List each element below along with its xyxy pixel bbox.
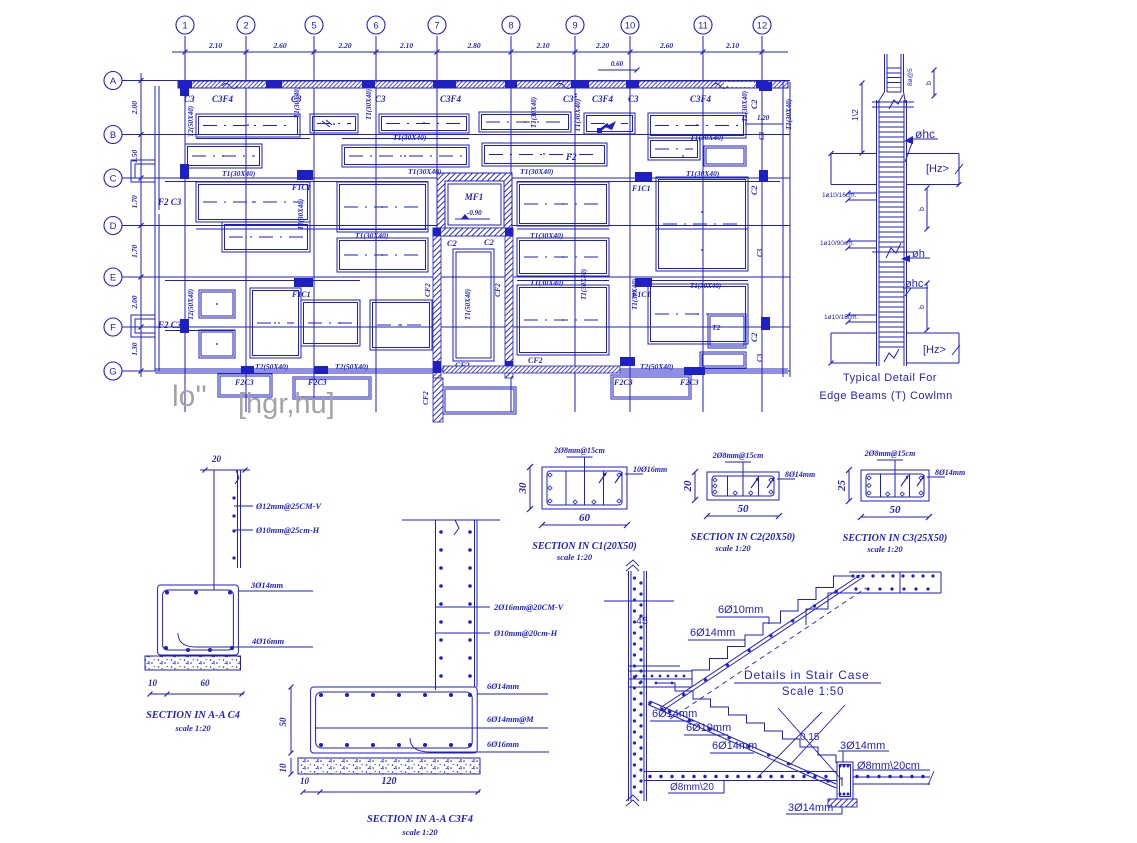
section SECTION IN C2(20X50) height dim [694, 472, 696, 500]
column F2C3 G/g5 [314, 366, 328, 374]
section C3F4 wall dots [439, 530, 472, 678]
svg-text:120: 120 [382, 776, 397, 787]
svg-text:T1(30X40): T1(30X40) [573, 98, 582, 132]
slab panel B1 [185, 144, 262, 168]
mid break and oh label [872, 251, 914, 253]
slab panel E-mid plus upper [250, 288, 301, 358]
section C4 bottom dim [150, 693, 244, 695]
svg-text:C3: C3 [375, 94, 386, 104]
svg-text:12: 12 [757, 21, 768, 32]
svg-text:2Ø8mm@15cm: 2Ø8mm@15cm [712, 451, 764, 460]
svg-text:F1C1: F1C1 [291, 290, 311, 299]
svg-text:[Hz>: [Hz> [926, 163, 949, 175]
shaft inner stair well [453, 249, 494, 361]
svg-text:T1(30X40): T1(30X40) [580, 269, 588, 300]
small step panel below T2 [700, 352, 746, 368]
svg-text:6Ø14mm@M: 6Ø14mm@M [487, 714, 534, 724]
svg-text:T1(30X40): T1(30X40) [293, 87, 301, 118]
slab panel F-left small [199, 330, 235, 358]
svg-text:30: 30 [517, 482, 529, 495]
plan right edge wall [782, 82, 784, 377]
svg-text:SECTION IN A-A C4: SECTION IN A-A C4 [146, 710, 240, 721]
section SECTION IN C1(20X50) corner diamonds [548, 473, 552, 477]
bottom slab right part [853, 769, 930, 771]
svg-text:-0.90: -0.90 [467, 209, 482, 217]
svg-text:b: b [919, 207, 926, 211]
svg-text:C2: C2 [484, 237, 495, 247]
svg-text:11: 11 [698, 21, 708, 32]
svg-text:2.20: 2.20 [595, 41, 609, 50]
svg-text:50: 50 [278, 717, 288, 727]
slab panel A4 [479, 112, 571, 132]
svg-text:6Ø14mm: 6Ø14mm [690, 627, 735, 639]
svg-text:C3F4: C3F4 [592, 94, 614, 104]
edge beam column verticals [876, 100, 878, 366]
slab panel B2 [342, 145, 469, 167]
shaft wall below G hatched [433, 378, 443, 422]
svg-text:F2C3: F2C3 [679, 378, 699, 387]
edge beam dim ticks bottom [829, 151, 834, 156]
column g12/E-F [761, 317, 770, 330]
upper flight steps [692, 576, 851, 682]
section box SECTION IN C2(20X50) [707, 472, 779, 500]
svg-text:2Ø16mm@20CM-V: 2Ø16mm@20CM-V [493, 602, 565, 612]
svg-text:T1(30X40): T1(30X40) [393, 133, 427, 142]
svg-text:2.10: 2.10 [725, 41, 739, 50]
svg-text:2.20: 2.20 [337, 41, 351, 50]
svg-text:2: 2 [243, 21, 248, 32]
svg-text:8ø@5: 8ø@5 [907, 68, 914, 86]
svg-text:Scale 1:50: Scale 1:50 [782, 686, 844, 698]
section C3F4 dim 50 vertical [290, 687, 292, 753]
svg-text:Ø12mm@25CM-V: Ø12mm@25CM-V [255, 501, 322, 511]
section C4 wall [213, 470, 215, 590]
svg-text:D: D [110, 221, 117, 232]
svg-text:1.20: 1.20 [757, 114, 770, 122]
svg-text:b: b [926, 81, 933, 85]
svg-text:T2(50X40): T2(50X40) [187, 289, 195, 320]
svg-text:scale 1:20: scale 1:20 [866, 544, 903, 554]
svg-text:[Hz>: [Hz> [923, 344, 946, 356]
svg-text:50: 50 [890, 504, 902, 516]
svg-text:T1(30X40): T1(30X40) [690, 133, 724, 142]
upper beam left [831, 153, 877, 155]
svg-text:C3F4: C3F4 [690, 94, 712, 104]
svg-text:C: C [110, 174, 117, 185]
column g1/A [180, 82, 189, 96]
svg-text:F2C3: F2C3 [307, 378, 327, 387]
slab panel C-mid [337, 182, 428, 232]
slab panel E-right of shaft [517, 285, 609, 355]
svg-text:T1(30X40): T1(30X40) [222, 169, 256, 178]
lower flight slab dots [648, 701, 829, 782]
svg-text:2.00: 2.00 [130, 101, 139, 115]
beam lines along grid D [196, 228, 428, 230]
svg-text:T1(30X40): T1(30X40) [355, 231, 389, 240]
slab panel D-mid [337, 238, 428, 272]
slab panel E-left small [199, 290, 235, 318]
plan bottom edge at G [155, 368, 788, 370]
svg-text:Ø10mm@20cm-H: Ø10mm@20cm-H [493, 628, 558, 638]
svg-text:10Ø16mm: 10Ø16mm [633, 465, 667, 474]
section SECTION IN C2(20X50) corner diamonds [713, 478, 717, 482]
section C4 wall dots [232, 496, 235, 499]
slab panel C-left lower [222, 222, 310, 252]
beam lines along grid C [165, 181, 428, 183]
stair wall break top [626, 560, 639, 571]
top slab left steps [806, 593, 849, 625]
svg-text:C3: C3 [756, 353, 764, 362]
section C3F4 top line [402, 519, 500, 521]
svg-text:b: b [919, 305, 926, 309]
svg-text:F2 C3: F2 C3 [157, 197, 182, 207]
stair wall left [628, 571, 630, 801]
svg-text:45: 45 [636, 615, 648, 627]
slab panel B3 F2 [482, 143, 607, 166]
svg-text:20: 20 [211, 454, 222, 464]
slab panel A5 with arrow [584, 113, 635, 134]
svg-text:F1C1: F1C1 [631, 184, 651, 193]
svg-text:scale 1:20: scale 1:20 [556, 552, 593, 562]
section C4 wall break top [235, 470, 239, 484]
section box SECTION IN C3(25X50) [861, 470, 929, 501]
stair shaft MF1 hatched walls [437, 173, 512, 236]
svg-text:6Ø16mm: 6Ø16mm [487, 739, 520, 749]
svg-text:scale 1:20: scale 1:20 [401, 827, 438, 837]
svg-text:T2: T2 [712, 323, 721, 332]
lower flight cross lines [757, 712, 822, 778]
room below G left [218, 374, 272, 397]
svg-text:8Ø14mm: 8Ø14mm [785, 470, 815, 479]
svg-text:A: A [110, 76, 117, 87]
svg-text:T1(30X40): T1(30X40) [785, 99, 793, 130]
svg-text:T2(50X40): T2(50X40) [255, 362, 289, 371]
svg-text:T1(30X40): T1(30X40) [408, 167, 442, 176]
section C3F4 mid rebar line [315, 727, 472, 729]
svg-text:C2: C2 [447, 238, 458, 248]
top slab [849, 571, 941, 573]
svg-text:10: 10 [278, 763, 288, 773]
svg-text:2Ø8mm@15cm: 2Ø8mm@15cm [864, 449, 916, 458]
edge beam top break [872, 101, 914, 103]
beam line along grid F [165, 330, 235, 332]
svg-text:T1(30X40): T1(30X40) [365, 89, 373, 120]
svg-text:9: 9 [572, 21, 577, 32]
svg-text:T1(50X40): T1(50X40) [464, 289, 472, 320]
svg-text:2.60: 2.60 [659, 41, 673, 50]
svg-text:T1(30X40): T1(30X40) [690, 282, 721, 290]
column F1C1 g5/E [294, 278, 313, 287]
svg-text:T1(30X40): T1(30X40) [520, 167, 554, 176]
svg-text:SECTION IN C1(20X50): SECTION IN C1(20X50) [532, 541, 636, 552]
svg-text:SECTION IN C3(25X50): SECTION IN C3(25X50) [843, 533, 947, 544]
column F2C3 G/g11 [684, 367, 705, 375]
shaft C2 walls hatched [433, 228, 441, 378]
left dimension line [140, 73, 142, 377]
room below G right of shaft [443, 387, 516, 414]
svg-text:50: 50 [738, 503, 750, 515]
svg-text:T1(30X40): T1(30X40) [686, 169, 720, 178]
svg-text:7: 7 [434, 21, 439, 32]
svg-text:F2C3: F2C3 [234, 378, 254, 387]
left wall jut at C [131, 160, 155, 182]
svg-text:0.15: 0.15 [800, 732, 820, 743]
svg-text:T1(30X40): T1(30X40) [530, 97, 538, 128]
section C4 footing [158, 585, 239, 655]
column F1C1 g10/E [635, 278, 652, 287]
stair right slab end tick [928, 771, 934, 785]
slab panel A6 [648, 113, 746, 138]
lower flight slab lines [650, 701, 836, 784]
svg-text:10: 10 [148, 678, 158, 688]
top dimension texts [208, 41, 739, 50]
svg-text:F1C1: F1C1 [291, 183, 311, 192]
svg-text:6Ø10mm: 6Ø10mm [718, 604, 763, 616]
shaft bottom solid blocks [433, 361, 441, 373]
stair beam pad hatched [828, 799, 857, 807]
svg-text:T1(30X40): T1(30X40) [741, 91, 749, 122]
bottom break [884, 349, 899, 362]
svg-text:G: G [109, 367, 116, 378]
svg-text:CF2: CF2 [421, 391, 430, 405]
svg-text:scale 1:20: scale 1:20 [174, 723, 211, 733]
svg-text:25: 25 [836, 480, 848, 493]
svg-text:Ø8mm\20: Ø8mm\20 [670, 782, 714, 793]
slab panel C-right of shaft [517, 182, 609, 226]
section SECTION IN C3(25X50) diagonal hooks [901, 476, 924, 486]
section C4 concrete pad [145, 656, 241, 670]
top edge hatched beam [178, 81, 788, 88]
svg-text:2.10: 2.10 [535, 41, 549, 50]
svg-text:3Ø14mm: 3Ø14mm [840, 740, 885, 752]
section SECTION IN C3(25X50) corner diamonds [867, 476, 871, 480]
grid bubbles left column [104, 72, 122, 381]
svg-text:Ø8mm\20cm: Ø8mm\20cm [857, 760, 920, 772]
section SECTION IN C1(20X50) height dim [529, 467, 531, 509]
svg-text:C2: C2 [750, 186, 759, 195]
edge beam taper [878, 92, 885, 103]
column g12/A [759, 82, 772, 91]
edge beam stirrup rungs [879, 112, 904, 347]
svg-text:3Ø14mm: 3Ø14mm [788, 802, 833, 814]
column g1/F [180, 319, 189, 333]
shaft top beam C2 [433, 228, 513, 236]
svg-text:1.70: 1.70 [130, 244, 139, 257]
dim b right lower [926, 283, 928, 330]
bottom slab left part [644, 771, 837, 773]
section C4 footing bottom rebar dots [164, 646, 168, 650]
svg-text:6Ø14mm: 6Ø14mm [487, 681, 520, 691]
svg-text:F2C3: F2C3 [613, 378, 633, 387]
svg-text:10: 10 [300, 776, 310, 786]
svg-text:4Ø16mm: 4Ø16mm [251, 636, 285, 646]
svg-text:0.60: 0.60 [611, 60, 624, 68]
svg-text:T1(30X40): T1(30X40) [631, 279, 639, 310]
bottom beam left [831, 332, 877, 334]
stair wall dots [633, 576, 643, 793]
svg-text:C3: C3 [184, 94, 195, 104]
section SECTION IN C3(25X50) height dim [848, 470, 850, 501]
svg-text:lo'': lo'' [172, 380, 207, 413]
dim b right mid [926, 188, 928, 229]
svg-text:T1(30X40): T1(30X40) [530, 278, 564, 287]
svg-text:10: 10 [625, 21, 636, 32]
small panel T2 [708, 314, 746, 348]
stair wall break bottom [626, 795, 639, 806]
svg-text:T1(30X40): T1(30X40) [297, 199, 305, 230]
lower flight steps [657, 683, 836, 763]
left wall jut at F [131, 315, 155, 337]
svg-text:[hgr,hu]: [hgr,hu] [238, 388, 335, 420]
svg-text:2.00: 2.00 [130, 295, 139, 309]
svg-text:20: 20 [682, 480, 694, 493]
svg-text:T2(50X40): T2(50X40) [335, 362, 369, 371]
section C3F4 concrete pad [298, 758, 480, 774]
svg-text:scale 1:20: scale 1:20 [714, 543, 751, 553]
upper flight dashed line [670, 588, 866, 719]
section C4 top dim 20 [200, 469, 250, 471]
svg-text:1.70: 1.70 [130, 195, 139, 208]
section C3F4 wall [435, 520, 437, 690]
svg-text:2Ø8mm@15cm: 2Ø8mm@15cm [553, 446, 605, 455]
svg-text:1\2: 1\2 [850, 109, 860, 121]
section C3F4 footing top dots [319, 693, 472, 697]
svg-text:6Ø10mm: 6Ø10mm [686, 722, 731, 734]
slab panel F-mid [370, 300, 432, 350]
upper beam right [907, 153, 960, 155]
section C3F4 footing [311, 687, 478, 753]
svg-text:C3: C3 [758, 131, 766, 140]
bottom beam right [907, 332, 960, 334]
slab panel A2 [310, 114, 358, 133]
panel centroid dots [216, 121, 703, 345]
mid landing [628, 670, 692, 672]
horizontal grid lines [122, 81, 790, 372]
upper landing line [604, 600, 674, 602]
column g1/C [180, 164, 189, 179]
slab panel C-D far right [656, 177, 748, 271]
svg-text:E: E [110, 273, 116, 284]
svg-text:SECTION IN A-A C3F4: SECTION IN A-A C3F4 [367, 814, 473, 825]
section SECTION IN C2(20X50) width dim [707, 515, 779, 517]
column F1C1 g10/C [635, 172, 652, 181]
svg-text:6: 6 [373, 21, 378, 32]
section C3F4 footing bottom dots [319, 743, 472, 747]
svg-text:B: B [110, 130, 116, 141]
beam lines along grid E [165, 280, 360, 282]
svg-text:60: 60 [201, 678, 211, 688]
svg-text:T2(50X40): T2(50X40) [187, 106, 195, 137]
svg-text:C3: C3 [628, 94, 639, 104]
slab panel A6 step [648, 138, 700, 160]
svg-text:2.60: 2.60 [272, 41, 286, 50]
svg-text:2.10: 2.10 [208, 41, 222, 50]
slab panel A1 [196, 114, 300, 137]
svg-text:F: F [110, 323, 116, 334]
section C3F4 dim 10 vertical [290, 758, 292, 774]
section SECTION IN C1(20X50) diagonal hooks [599, 473, 622, 483]
svg-text:T1(30X40): T1(30X40) [530, 231, 564, 240]
svg-text:Details in Stair Case: Details in Stair Case [744, 668, 870, 682]
column F1C1 g5/C [297, 170, 313, 180]
upper flight slab lines [660, 575, 860, 708]
band wave scribbles [222, 84, 728, 89]
room below G mid [293, 377, 371, 399]
svg-text:8Ø14mm: 8Ø14mm [935, 468, 965, 477]
svg-text:C3F4: C3F4 [212, 94, 234, 104]
svg-text:8: 8 [508, 21, 513, 32]
column F2C3 G/g2 [241, 366, 254, 374]
section C3F4 wall break top [454, 520, 459, 535]
slab panel E far right [648, 284, 748, 344]
svg-text:Typical Detail For: Typical Detail For [843, 372, 937, 384]
dim 1/2 vertical [861, 83, 863, 153]
top slab dots [851, 574, 934, 590]
section C4 footing top rebar dots [165, 591, 169, 595]
section box SECTION IN C1(20X50) [542, 467, 627, 509]
svg-text:C2: C2 [750, 100, 759, 109]
svg-text:1: 1 [182, 21, 187, 32]
svg-text:F2: F2 [565, 152, 577, 162]
svg-text:C2: C2 [750, 333, 759, 342]
svg-text:1.30: 1.30 [130, 342, 139, 355]
grid bubbles top row [176, 16, 771, 34]
column g12/C [759, 170, 768, 181]
svg-text:2.10: 2.10 [399, 41, 413, 50]
svg-text:Edge Beams (T) Cowlmn: Edge Beams (T) Cowlmn [819, 390, 952, 402]
svg-text:6Ø14mm: 6Ø14mm [712, 740, 757, 752]
section C3F4 bottom dim [303, 791, 480, 793]
svg-text:Ø10mm@25cm-H: Ø10mm@25cm-H [255, 525, 320, 535]
top beam white gap [724, 82, 754, 87]
svg-text:C3F4: C3F4 [440, 94, 462, 104]
svg-text:▪▪: ▪▪ [572, 93, 580, 98]
svg-text:F2 C3: F2 C3 [157, 320, 182, 330]
section SECTION IN C2(20X50) diagonal hooks [751, 478, 774, 488]
svg-text:T2(50X40): T2(50X40) [640, 362, 674, 371]
room below G right [611, 375, 691, 399]
svg-text:CF2: CF2 [493, 283, 502, 297]
svg-text:2.80: 2.80 [466, 41, 480, 50]
slab panel C-left upper [196, 182, 310, 222]
slab panel D-right of shaft [517, 238, 609, 276]
svg-text:5: 5 [311, 21, 316, 32]
top dimension line [172, 51, 788, 53]
vertical grid lines [185, 36, 762, 412]
slab panel A3 [379, 114, 469, 133]
section SECTION IN C1(20X50) width dim [542, 524, 627, 526]
left dimension texts [130, 101, 139, 356]
dim b top right [933, 70, 935, 96]
svg-text:6Ø14mm: 6Ø14mm [652, 708, 697, 720]
svg-text:CF2: CF2 [528, 356, 543, 365]
svg-text:CF2: CF2 [423, 283, 432, 297]
column F2C3 G/g10 [620, 357, 635, 366]
stair end beam [837, 762, 853, 799]
upper flight slab dots [660, 575, 859, 711]
svg-text:60: 60 [579, 512, 591, 524]
section SECTION IN C3(25X50) width dim [861, 516, 929, 518]
svg-text:SECTION IN C2(20X50): SECTION IN C2(20X50) [691, 532, 795, 543]
plan left outer wall [154, 86, 156, 371]
svg-text:C3: C3 [756, 248, 764, 257]
slab panel E-mid plus right [301, 300, 360, 346]
edge beam top narrow ladder [884, 54, 886, 92]
beam lines along grid B [196, 138, 310, 140]
svg-text:3Ø14mm: 3Ø14mm [250, 580, 284, 590]
G line hatched band [443, 366, 620, 373]
top beam solid segments [178, 81, 192, 89]
